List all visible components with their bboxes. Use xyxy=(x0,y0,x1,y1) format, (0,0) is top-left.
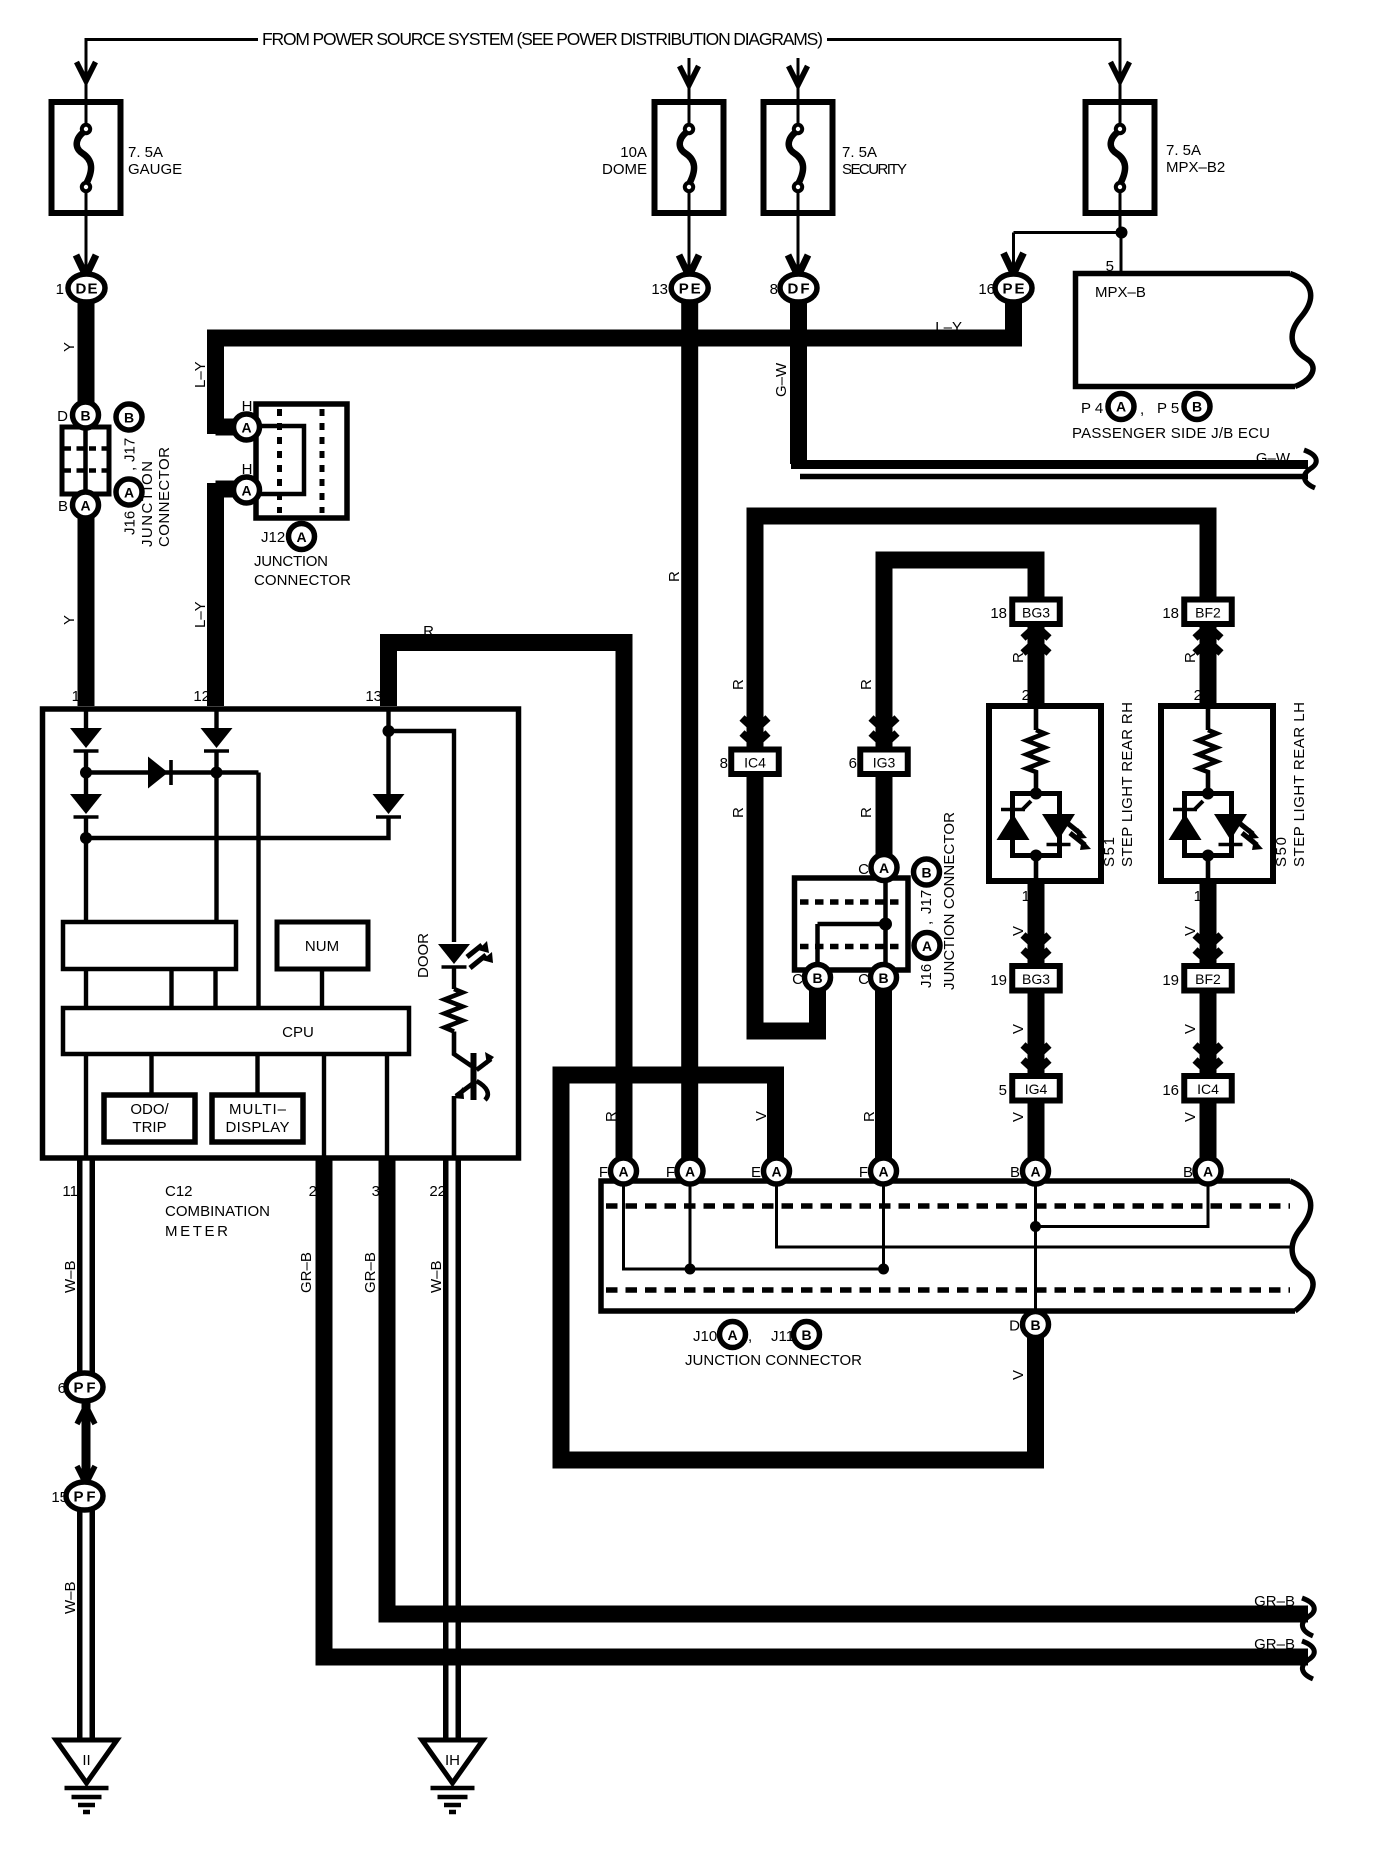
svg-text:7. 5A: 7. 5A xyxy=(1166,142,1201,159)
svg-text:R: R xyxy=(423,623,434,640)
svg-text:11: 11 xyxy=(62,1183,78,1200)
svg-text:W–B: W–B xyxy=(428,1260,445,1293)
svg-text:MPX–B: MPX–B xyxy=(1095,284,1146,301)
svg-text:DOOR: DOOR xyxy=(415,933,432,978)
svg-text:13: 13 xyxy=(651,281,668,298)
svg-text:P 5: P 5 xyxy=(1157,400,1179,417)
svg-text:A: A xyxy=(618,1164,628,1180)
svg-text:R: R xyxy=(858,807,875,818)
svg-text:J16: J16 xyxy=(122,511,139,535)
svg-text:J17: J17 xyxy=(122,438,139,462)
svg-text:BF2: BF2 xyxy=(1195,605,1221,621)
svg-text:8: 8 xyxy=(720,755,728,772)
svg-text:F: F xyxy=(599,1164,608,1181)
svg-text:F: F xyxy=(859,1164,868,1181)
svg-text:6: 6 xyxy=(849,755,857,772)
svg-text:GR–B: GR–B xyxy=(1254,1593,1295,1610)
svg-text:H: H xyxy=(242,461,253,478)
svg-text:2: 2 xyxy=(1022,687,1030,704)
svg-text:8: 8 xyxy=(770,281,778,298)
svg-text:,: , xyxy=(748,1328,752,1345)
svg-text:S50: S50 xyxy=(1273,837,1290,867)
svg-text:22: 22 xyxy=(429,1183,446,1200)
svg-text:,: , xyxy=(1140,401,1144,418)
svg-text:C: C xyxy=(858,971,869,988)
svg-text:COMBINATION: COMBINATION xyxy=(165,1203,270,1220)
svg-text:Y: Y xyxy=(61,342,78,352)
svg-text:STEP LIGHT REAR LH: STEP LIGHT REAR LH xyxy=(1291,702,1308,867)
svg-text:3: 3 xyxy=(372,1183,380,1200)
svg-text:J11: J11 xyxy=(771,1328,794,1345)
svg-text:R: R xyxy=(858,679,875,690)
svg-text:A: A xyxy=(241,483,251,499)
svg-text:18: 18 xyxy=(1162,605,1179,622)
svg-text:B: B xyxy=(124,410,134,426)
svg-text:JUNCTION CONNECTOR: JUNCTION CONNECTOR xyxy=(941,812,958,990)
svg-text:A: A xyxy=(80,498,90,514)
svg-text:P 4: P 4 xyxy=(1081,400,1103,417)
svg-text:J16: J16 xyxy=(918,964,935,988)
svg-text:C: C xyxy=(792,971,803,988)
svg-text:B: B xyxy=(878,970,888,986)
svg-text:GR–B: GR–B xyxy=(298,1252,315,1293)
svg-text:CPU: CPU xyxy=(282,1024,314,1041)
svg-text:A: A xyxy=(771,1164,781,1180)
svg-text:A: A xyxy=(727,1327,737,1343)
svg-text:MPX–B2: MPX–B2 xyxy=(1166,159,1225,176)
svg-text:DOME: DOME xyxy=(602,161,647,178)
svg-text:B: B xyxy=(80,408,90,424)
svg-text:C: C xyxy=(858,861,869,878)
svg-text:,: , xyxy=(122,467,139,471)
svg-text:D: D xyxy=(1009,1318,1020,1335)
svg-text:DE: DE xyxy=(76,281,98,298)
svg-text:A: A xyxy=(1203,1164,1213,1180)
svg-text:MULTI–: MULTI– xyxy=(229,1101,287,1118)
svg-text:2: 2 xyxy=(309,1183,317,1200)
svg-text:16: 16 xyxy=(978,281,995,298)
svg-text:A: A xyxy=(879,860,889,876)
svg-text:1: 1 xyxy=(56,281,64,298)
svg-text:C12: C12 xyxy=(165,1183,193,1200)
svg-text:R: R xyxy=(730,807,747,818)
svg-text:METER: METER xyxy=(165,1223,228,1240)
svg-text:S51: S51 xyxy=(1101,837,1118,867)
svg-text:J10: J10 xyxy=(693,1328,717,1345)
svg-text:STEP LIGHT REAR RH: STEP LIGHT REAR RH xyxy=(1119,702,1136,867)
svg-text:A: A xyxy=(241,420,251,436)
svg-text:A: A xyxy=(685,1164,695,1180)
svg-text:19: 19 xyxy=(1162,972,1179,989)
svg-text:B: B xyxy=(1192,399,1202,415)
svg-text:,: , xyxy=(918,921,935,925)
svg-text:IH: IH xyxy=(445,1752,460,1769)
svg-text:V: V xyxy=(1182,1112,1199,1122)
svg-text:PE: PE xyxy=(1003,281,1025,298)
svg-text:B: B xyxy=(1010,1164,1020,1181)
svg-text:PASSENGER SIDE J/B ECU: PASSENGER SIDE J/B ECU xyxy=(1072,425,1270,442)
svg-text:5: 5 xyxy=(999,1082,1007,1099)
svg-text:2: 2 xyxy=(1194,687,1202,704)
svg-text:DISPLAY: DISPLAY xyxy=(226,1119,290,1136)
svg-text:TRIP: TRIP xyxy=(132,1119,166,1136)
svg-text:A: A xyxy=(296,529,306,545)
svg-text:A: A xyxy=(124,485,134,501)
svg-text:A: A xyxy=(1116,399,1126,415)
svg-text:12: 12 xyxy=(193,688,210,705)
svg-text:IG4: IG4 xyxy=(1025,1081,1048,1097)
svg-text:CONNECTOR: CONNECTOR xyxy=(254,572,351,589)
svg-text:GR–B: GR–B xyxy=(1254,1636,1295,1653)
svg-text:L–Y: L–Y xyxy=(935,319,962,336)
svg-text:II: II xyxy=(82,1752,90,1769)
svg-text:Y: Y xyxy=(61,615,78,625)
svg-text:R: R xyxy=(861,1111,878,1122)
svg-text:V: V xyxy=(753,1111,770,1121)
svg-text:BG3: BG3 xyxy=(1022,605,1050,621)
svg-text:A: A xyxy=(922,938,932,954)
svg-text:JUNCTION: JUNCTION xyxy=(139,461,156,547)
svg-text:J12: J12 xyxy=(261,529,285,546)
svg-text:G–W: G–W xyxy=(773,362,790,397)
svg-text:16: 16 xyxy=(1162,1082,1179,1099)
svg-text:L–Y: L–Y xyxy=(192,361,209,388)
svg-text:GR–B: GR–B xyxy=(362,1252,379,1293)
svg-text:V: V xyxy=(1010,1370,1027,1380)
svg-text:E: E xyxy=(751,1164,761,1181)
svg-text:R: R xyxy=(730,679,747,690)
svg-text:PE: PE xyxy=(679,281,701,298)
svg-text:W–B: W–B xyxy=(62,1581,79,1614)
svg-text:D: D xyxy=(57,408,68,425)
svg-text:7. 5A: 7. 5A xyxy=(128,144,163,161)
svg-text:10A: 10A xyxy=(620,144,647,161)
svg-text:SECURITY: SECURITY xyxy=(842,161,907,178)
svg-text:A: A xyxy=(1030,1164,1040,1180)
svg-text:A: A xyxy=(878,1164,888,1180)
svg-text:B: B xyxy=(812,970,822,986)
svg-text:18: 18 xyxy=(990,605,1007,622)
svg-text:B: B xyxy=(58,498,68,515)
svg-text:IC4: IC4 xyxy=(1197,1081,1219,1097)
svg-text:V: V xyxy=(1010,1112,1027,1122)
svg-text:B: B xyxy=(801,1327,811,1343)
svg-text:B: B xyxy=(1183,1164,1193,1181)
svg-text:J17: J17 xyxy=(918,890,935,914)
svg-text:NUM: NUM xyxy=(305,938,339,955)
svg-text:JUNCTION CONNECTOR: JUNCTION CONNECTOR xyxy=(685,1352,862,1369)
svg-text:W–B: W–B xyxy=(62,1260,79,1293)
svg-text:H: H xyxy=(242,398,253,415)
svg-text:R: R xyxy=(603,1111,620,1122)
svg-text:R: R xyxy=(666,571,683,582)
svg-text:1: 1 xyxy=(1022,888,1030,905)
svg-text:V: V xyxy=(1010,1024,1027,1034)
svg-text:1: 1 xyxy=(1194,888,1202,905)
svg-text:V: V xyxy=(1182,1024,1199,1034)
svg-text:FROM POWER SOURCE SYSTEM (SEE: FROM POWER SOURCE SYSTEM (SEE POWER DIST… xyxy=(262,29,823,49)
svg-text:19: 19 xyxy=(990,972,1007,989)
svg-text:G–W: G–W xyxy=(1256,450,1291,467)
svg-text:ODO/: ODO/ xyxy=(130,1101,169,1118)
svg-text:L–Y: L–Y xyxy=(192,601,209,628)
svg-text:CONNECTOR: CONNECTOR xyxy=(156,447,173,547)
svg-text:13: 13 xyxy=(365,688,382,705)
svg-text:IG3: IG3 xyxy=(873,755,896,771)
svg-text:7. 5A: 7. 5A xyxy=(842,144,877,161)
svg-text:JUNCTION: JUNCTION xyxy=(254,553,328,570)
svg-text:1: 1 xyxy=(72,688,80,705)
svg-text:B: B xyxy=(1030,1317,1040,1333)
svg-text:GAUGE: GAUGE xyxy=(128,161,182,178)
svg-text:B: B xyxy=(921,865,931,881)
svg-text:F: F xyxy=(666,1164,675,1181)
svg-text:BF2: BF2 xyxy=(1195,971,1221,987)
svg-text:IC4: IC4 xyxy=(744,755,766,771)
svg-text:BG3: BG3 xyxy=(1022,971,1050,987)
